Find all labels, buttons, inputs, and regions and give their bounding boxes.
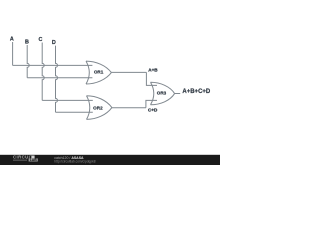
wire OR1 output to node A+B [111, 71, 146, 73]
wire D vertical with hops over A, B, C wires [56, 46, 58, 113]
svg-text:A: A [10, 36, 14, 42]
svg-text:OR2: OR2 [93, 106, 103, 111]
or-gate OR2 body [87, 96, 112, 120]
svg-text:OR1: OR1 [94, 70, 104, 75]
wire A vertical [12, 42, 14, 65]
svg-text:B: B [25, 39, 29, 45]
watermark bar [0, 155, 220, 165]
wire OR2 output to node C+D [111, 107, 145, 109]
wire riser down from A+B to OR3 input 1 [146, 72, 157, 85]
svg-text:http://circuitlab.com/c/pdqpk8: http://circuitlab.com/c/pdqpk8 [54, 159, 96, 163]
svg-text:C+D: C+D [148, 108, 158, 113]
svg-text:LAB: LAB [30, 158, 38, 162]
wire C horizontal to OR2 input 1 [42, 99, 93, 101]
wire B vertical with hops over A wire [27, 45, 29, 78]
or-gate OR3 body [151, 82, 175, 105]
or-gate OR1 body [86, 61, 111, 84]
svg-text:A+B+C+D: A+B+C+D [182, 89, 211, 95]
svg-text:C: C [39, 37, 43, 43]
svg-text:D: D [52, 40, 56, 46]
svg-text:A+B: A+B [148, 68, 158, 73]
wire riser up from C+D to OR3 input 2 [146, 100, 157, 107]
wire D horizontal to OR2 input 2 [56, 111, 93, 113]
wire B horizontal to OR1 input 2 [27, 77, 92, 79]
wire A horizontal to OR1 input 1 [13, 64, 93, 66]
circuitlab logo LAB row [13, 159, 27, 161]
wire C vertical with hops over A and B wires [42, 43, 44, 101]
wire OR3 output [175, 93, 181, 95]
svg-text:OR3: OR3 [157, 91, 167, 96]
